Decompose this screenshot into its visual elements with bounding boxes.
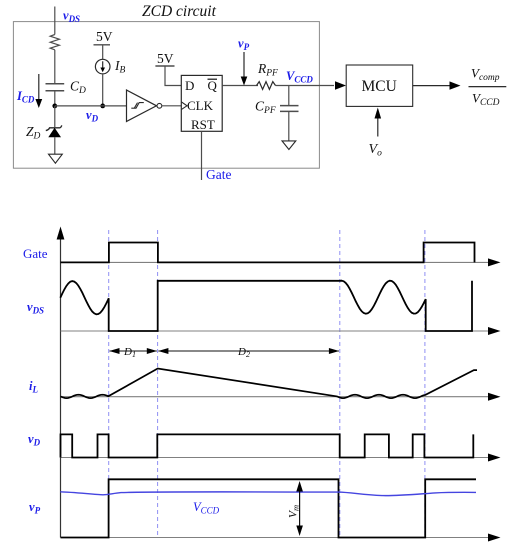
svg-text:CLK: CLK — [187, 98, 214, 113]
ZCD circuit enclosure box — [13, 22, 319, 169]
Vo input arrow — [377, 118, 379, 137]
vD waveform — [61, 434, 474, 457]
svg-text:5V: 5V — [96, 29, 113, 44]
svg-text:vP: vP — [238, 37, 250, 53]
svg-text:RPF: RPF — [257, 61, 278, 79]
Vm measure arrow — [299, 490, 301, 527]
capacitor CD — [46, 83, 65, 85]
svg-text:Vm: Vm — [288, 505, 301, 518]
dashed timing marker line t3 — [339, 230, 341, 538]
dashed timing marker line t2 — [157, 230, 159, 538]
D1 interval arrow — [110, 350, 157, 352]
wire MCU output — [413, 85, 450, 87]
dashed timing marker line t1 — [108, 230, 110, 538]
node A (vD left junction) — [52, 104, 57, 109]
wire inverter to CLK — [162, 105, 182, 107]
ground (zener) — [49, 154, 63, 163]
svg-text:CPF: CPF — [255, 99, 276, 117]
time axis vertical — [60, 237, 62, 538]
wire vD horizontal to inverter — [55, 105, 127, 107]
svg-text:IB: IB — [114, 58, 126, 76]
svg-text:MCU: MCU — [362, 78, 397, 95]
svg-text:RST: RST — [191, 117, 215, 132]
wire drain vertical — [54, 7, 56, 35]
capacitor CPF — [280, 105, 299, 107]
vDS row axis — [61, 330, 490, 332]
svg-text:iL: iL — [29, 379, 38, 395]
svg-text:D2: D2 — [237, 346, 250, 359]
ground (CPF) — [282, 141, 296, 150]
node B (vD right junction) — [100, 104, 105, 109]
wire IB to node — [102, 74, 104, 106]
svg-text:vDS: vDS — [63, 9, 80, 25]
svg-text:VCCD: VCCD — [286, 69, 313, 85]
svg-text:Q: Q — [208, 78, 218, 93]
current source IB — [95, 59, 110, 74]
svg-text:ZCD circuit: ZCD circuit — [142, 3, 217, 20]
wire Qbar output — [222, 85, 258, 87]
resistor RPF — [257, 82, 276, 90]
vP waveform — [61, 479, 477, 537]
dashed timing marker line t4 — [424, 230, 426, 538]
pin CLK — [181, 102, 187, 110]
iL waveform — [61, 369, 478, 399]
svg-text:D1: D1 — [123, 346, 136, 359]
svg-text:vD: vD — [86, 108, 99, 124]
svg-text:D: D — [185, 78, 194, 93]
current arrow ICD — [38, 74, 40, 100]
VCCD average blue curve — [60, 492, 476, 496]
svg-text:ZD: ZD — [26, 124, 41, 142]
wire CPF to ground — [288, 111, 290, 140]
wire node to zener — [54, 106, 56, 127]
wire RST to Gate — [201, 131, 203, 180]
svg-text:vP: vP — [29, 500, 41, 516]
wire 5V to D — [165, 66, 181, 86]
svg-text:Vo: Vo — [369, 142, 383, 159]
vDS waveform — [60, 281, 472, 331]
svg-text:ICD: ICD — [16, 89, 35, 105]
vP probe arrow — [243, 52, 245, 77]
svg-text:vDS: vDS — [27, 300, 44, 316]
Gate row axis — [61, 261, 490, 263]
svg-text:CD: CD — [70, 79, 86, 97]
svg-text:Vcomp: Vcomp — [471, 66, 500, 84]
svg-text:Gate: Gate — [206, 167, 231, 182]
zener diode ZD — [46, 125, 62, 130]
svg-text:Gate: Gate — [23, 246, 48, 261]
svg-text:VCCD: VCCD — [193, 500, 220, 516]
wire RPF to VCCD node and out of box — [276, 85, 335, 87]
Gate waveform — [61, 243, 475, 263]
resistor (drain series) — [50, 35, 59, 50]
wire VCCD to CPF — [288, 86, 290, 106]
iL row axis — [61, 396, 490, 398]
svg-text:VCCD: VCCD — [472, 91, 500, 109]
MCU box — [346, 65, 413, 106]
wire CD to node vD — [54, 91, 56, 106]
svg-text:5V: 5V — [157, 51, 174, 66]
wire resistor to CD — [54, 50, 56, 84]
flip-flop U2 — [181, 75, 222, 131]
arrow into MCU — [335, 81, 346, 89]
vP row axis — [61, 537, 490, 539]
wire zener to ground — [54, 137, 56, 154]
D2 interval arrow — [158, 350, 339, 352]
schmitt inverter U1 — [127, 90, 157, 122]
vD row axis — [61, 457, 490, 459]
svg-text:vD: vD — [28, 432, 41, 448]
